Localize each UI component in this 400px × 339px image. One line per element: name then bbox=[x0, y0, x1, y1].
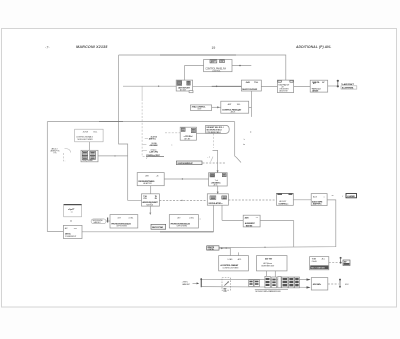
wire: dark segment near exciter input bbox=[212, 85, 242, 87]
svg-text:xBR: xBR bbox=[145, 176, 149, 178]
label stack: rx supply line bbox=[142, 150, 158, 154]
svg-text:ATT JBV: ATT JBV bbox=[184, 137, 191, 140]
wire: ps3 output to terminal bbox=[329, 261, 339, 263]
label stack: signal 28v line bbox=[143, 142, 173, 147]
label stack: load test line bbox=[146, 155, 164, 159]
svg-text:LOAD: LOAD bbox=[228, 258, 233, 261]
label: seven mark near synth bbox=[207, 157, 213, 162]
block: uhf receiver transmitter adapter bbox=[137, 173, 164, 186]
svg-text:xOBL: xOBL bbox=[189, 218, 195, 220]
svg-text:SW: SW bbox=[220, 61, 223, 63]
label: ancillary note bbox=[51, 147, 71, 161]
block: protection modules right bbox=[169, 215, 198, 228]
block: small power tag bbox=[151, 224, 166, 229]
svg-text:A7: A7 bbox=[322, 81, 324, 84]
wire: freq standard output bbox=[95, 155, 127, 157]
wire: vertical drop right of receiver strip bbox=[235, 122, 241, 163]
svg-text:-7-: -7- bbox=[45, 46, 50, 50]
block: aux audio adapter bbox=[311, 194, 327, 206]
wire: dark segment on control bus bbox=[99, 121, 123, 123]
svg-text:MODULATOR x: MODULATOR x bbox=[209, 202, 224, 205]
wire: if unit to modulator bbox=[217, 186, 219, 194]
wire: control distribution drop bbox=[88, 142, 90, 151]
wire: dark segment on bottom bus bbox=[160, 231, 213, 233]
module strip: spare modules row bbox=[249, 276, 300, 293]
node on antenna switch output bbox=[239, 65, 241, 67]
wire: bottom audio pair lower bbox=[202, 286, 310, 289]
svg-text:MODULE POWER: MODULE POWER bbox=[78, 139, 94, 141]
arrow into battery lower bbox=[307, 286, 311, 288]
block: protection modules left bbox=[110, 215, 138, 228]
svg-text:19: 19 bbox=[212, 46, 216, 50]
node junction on receiver input bbox=[158, 86, 159, 87]
svg-text:-2dB: -2dB bbox=[245, 82, 250, 84]
svg-text:UHF SYSTEM: UHF SYSTEM bbox=[177, 226, 188, 228]
block: antenna switch control panel bbox=[204, 60, 232, 73]
svg-text:CONTROL: CONTROL bbox=[212, 70, 221, 72]
wire: rf unit to multicoupler bbox=[193, 85, 242, 87]
block: control signal distribution bbox=[75, 129, 103, 142]
svg-text:MARCONI X2135: MARCONI X2135 bbox=[76, 45, 108, 49]
wire: alignment unit row bbox=[222, 219, 294, 221]
svg-text:x: x bbox=[324, 196, 325, 198]
svg-text:TEST TM: TEST TM bbox=[246, 225, 253, 227]
wire: power amp to antenna terminal bbox=[328, 85, 338, 87]
wire: receiver input bbox=[123, 85, 176, 87]
svg-text:45V BATs: 45V BATs bbox=[313, 283, 322, 286]
node on freq standard wire bbox=[114, 155, 115, 156]
block: power supply control bbox=[219, 256, 249, 271]
wire: receiver-exciter to power amp bbox=[294, 86, 311, 88]
svg-text:COS SIGN. SEL I: COS SIGN. SEL I bbox=[206, 132, 221, 134]
block: synthesizer bar bbox=[176, 161, 202, 165]
svg-text:SYNTHESIZER AT: SYNTHESIZER AT bbox=[177, 162, 193, 165]
label: handset test note bbox=[182, 282, 191, 286]
wire: multicoupler to receiver-exciter bbox=[261, 86, 277, 88]
block: receiver exciter module bbox=[180, 127, 196, 140]
wire: exciter to receiver strip bbox=[196, 132, 205, 134]
block: receiver strip rounded bbox=[206, 125, 230, 133]
wire: dashed drop to signal labels bbox=[141, 86, 143, 99]
wire: adjust unit to aux adapter bbox=[293, 199, 311, 201]
svg-text:MULTICOUPLER: MULTICOUPLER bbox=[242, 89, 257, 91]
svg-text:x: x bbox=[200, 218, 201, 220]
wire: receiver strip to if unit bbox=[213, 134, 215, 149]
wire: corner into if unit bbox=[213, 150, 218, 172]
svg-text:+28V MAIN: +28V MAIN bbox=[149, 144, 158, 147]
svg-text:ACx: ACx bbox=[322, 258, 325, 261]
block: dc tag bbox=[343, 260, 350, 266]
node on uhf-if wire bbox=[182, 178, 183, 179]
wire: uhf adapter to if unit bbox=[164, 178, 208, 180]
label: loaded tag bbox=[332, 194, 357, 198]
label stack: alarm line bbox=[145, 136, 158, 141]
wire: bottom audio pair upper bbox=[202, 278, 310, 280]
node on dashed modulator wire bbox=[181, 200, 182, 201]
svg-text:HANDSET: HANDSET bbox=[182, 283, 191, 286]
block: inverter supply bbox=[257, 256, 288, 271]
svg-text:x: x bbox=[171, 144, 172, 146]
node on rf-multicoupler wire bbox=[216, 86, 218, 88]
label: microphone handset pill bbox=[91, 219, 106, 224]
arrow down below uhf modulator bbox=[149, 213, 151, 215]
svg-text:AT7: AT7 bbox=[313, 82, 316, 85]
block: adjust control unit bbox=[276, 193, 293, 205]
node: dot between test boxes bbox=[70, 220, 71, 221]
svg-text:LOADED: LOADED bbox=[347, 195, 355, 198]
svg-text:xxx: xxx bbox=[74, 228, 77, 230]
arrow head handset bbox=[197, 282, 200, 284]
svg-text:INVERTER UNIT: INVERTER UNIT bbox=[261, 265, 275, 267]
wire: modulator to adjust unit dashed bbox=[228, 199, 276, 201]
svg-text:CONTROL SYSTEM: CONTROL SYSTEM bbox=[222, 267, 238, 269]
connector: rectifier output bbox=[340, 257, 342, 264]
svg-text:400 TSV: 400 TSV bbox=[265, 258, 273, 261]
wire: left vertical feed from top bus bbox=[119, 55, 142, 200]
block: rf control unit A1 bbox=[176, 80, 193, 93]
wire: exciter label leader dashed bbox=[165, 132, 180, 134]
block: frequency standard bbox=[81, 150, 98, 162]
wire: feed to antenna switch unit bbox=[185, 65, 204, 80]
block: alignment test unit bbox=[243, 215, 260, 227]
wire: riser from alignment row bbox=[293, 221, 295, 247]
node on remote feed bbox=[226, 247, 227, 248]
block: power amplifier bbox=[310, 80, 328, 92]
wire: dashed uhf modulator to modulator bbox=[159, 199, 207, 201]
svg-text:xx: xx bbox=[332, 195, 334, 197]
arrow into control unit bbox=[217, 106, 219, 108]
svg-text:UHF SYSTEM: UHF SYSTEM bbox=[116, 226, 127, 228]
wire: bottom bus to modulator bbox=[82, 205, 213, 231]
wire: uhf box vertical stubs bbox=[149, 186, 151, 214]
svg-text:x x: x x bbox=[256, 217, 258, 219]
connector: battery output bbox=[339, 279, 349, 288]
wire: left bus vertical bbox=[47, 122, 63, 232]
svg-text:28V DC PWR: 28V DC PWR bbox=[152, 227, 164, 229]
wire: modulator bottom stub to alignment bbox=[221, 205, 223, 220]
svg-text:AT UNIT: AT UNIT bbox=[180, 88, 187, 91]
wire: remote control feed bbox=[219, 247, 230, 249]
block: multicoupler bbox=[241, 80, 261, 91]
block: if amplifier unit bbox=[209, 173, 228, 187]
block: ac power unit bbox=[63, 225, 82, 238]
svg-text:CONTROL x: CONTROL x bbox=[278, 203, 289, 205]
svg-text:FREQ STAND: FREQ STAND bbox=[83, 159, 94, 162]
wire: stub into power supply 1 bbox=[238, 252, 240, 255]
node: antenna terminal bbox=[337, 80, 357, 90]
svg-text:P.A.(RF(A) SW: P.A.(RF(A) SW bbox=[278, 83, 289, 86]
wire: xtal unit to control unit bbox=[212, 106, 221, 108]
svg-text:xx: xx bbox=[71, 211, 73, 213]
arrow into battery upper bbox=[307, 278, 311, 280]
block: battery unit bbox=[311, 278, 328, 290]
block: test panel bbox=[64, 204, 82, 217]
wire: handset label arrow bbox=[193, 282, 198, 284]
block: remote control tag bbox=[207, 246, 219, 251]
svg-text:JUNE: JUNE bbox=[83, 131, 89, 133]
wire: antenna switch output stub bbox=[232, 65, 251, 67]
wire: aux adapter loop to remote box bbox=[219, 200, 336, 248]
svg-text:AUX: AUX bbox=[313, 196, 318, 199]
wire: drop into power supply 1 bbox=[229, 248, 231, 256]
svg-text:(+28V x RX): (+28V x RX) bbox=[149, 152, 158, 154]
svg-text:→ 7: → 7 bbox=[207, 157, 210, 159]
svg-text:AND EXM: AND EXM bbox=[279, 90, 287, 93]
svg-text:xOBL: xOBL bbox=[128, 218, 134, 220]
svg-text:MODULE COMPL x SPARE MODULES: MODULE COMPL x SPARE MODULES bbox=[255, 290, 281, 293]
wire: main left bus loop bbox=[47, 121, 234, 123]
svg-text:M.E RUN: M.E RUN bbox=[146, 204, 153, 206]
svg-text:AT Tx: AT Tx bbox=[214, 183, 218, 186]
wire: mic pill to module box bbox=[106, 220, 110, 222]
svg-text:ANT TU x: ANT TU x bbox=[149, 138, 157, 141]
switch: inline dashed box bbox=[222, 278, 230, 293]
wire: multicoupler bottom drop bbox=[249, 91, 252, 117]
svg-text:ADDITIONAL (P) AVL: ADDITIONAL (P) AVL bbox=[295, 45, 331, 49]
block: modulator bbox=[207, 194, 228, 205]
block: xtal control unit bbox=[191, 105, 212, 111]
svg-text:ADAPTER: ADAPTER bbox=[143, 182, 152, 185]
block: receiver exciter rf bbox=[277, 80, 293, 93]
wire: dashed link to synthesizer bbox=[203, 162, 227, 164]
svg-text:ADAPTER x: ADAPTER x bbox=[313, 203, 323, 206]
label: tick marks right of control panel bbox=[243, 131, 251, 146]
block: control unit B bbox=[221, 101, 249, 114]
block: rectifier charger bbox=[310, 257, 329, 270]
svg-text:ATS EM: ATS EM bbox=[312, 89, 318, 92]
wire: top bus from antenna-switch area to exciter bbox=[119, 55, 286, 80]
connector: audio terminal bbox=[200, 278, 202, 287]
wire: ps2 bottom stubs bbox=[266, 271, 275, 277]
svg-text:AL ANTENNA: AL ANTENNA bbox=[342, 86, 354, 89]
node on long loop wire bbox=[264, 247, 265, 248]
svg-text:RECT CHARGER: RECT CHARGER bbox=[311, 266, 325, 269]
connector: mic input bbox=[107, 218, 108, 223]
svg-text:POWER INPUT: POWER INPUT bbox=[65, 236, 77, 238]
block: uhf modulator bbox=[142, 194, 160, 207]
svg-text:HANDSET: HANDSET bbox=[94, 221, 102, 224]
wire: battery output to terminal bbox=[328, 283, 339, 285]
